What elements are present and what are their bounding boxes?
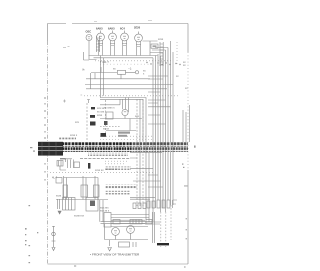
dashed enclosure right: [153, 212, 155, 243]
bus line A: [89, 55, 158, 57]
svg-text:xxxx: xxxx: [97, 114, 103, 117]
coil ladder: [96, 36, 100, 52]
band lighter right overlay: [131, 142, 188, 152]
border frame right: [187, 24, 189, 53]
svg-text:xxxxx-xx: xxxxx-xx: [74, 215, 85, 218]
nest box with arrow: [151, 44, 158, 48]
svg-text:2E26: 2E26: [134, 26, 141, 30]
lower-left structure: [68, 160, 74, 169]
svg-text:xx xxxx x: xx xxxx x: [104, 107, 115, 110]
band white slits: [70, 142, 171, 152]
tick marks above border: [94, 21, 152, 22]
svg-text:--1:: --1:: [128, 67, 132, 71]
tube V7: [112, 228, 120, 236]
svg-text:xxxx: xxxx: [158, 38, 164, 41]
svg-text:xxxx xx: xxxx xx: [95, 169, 104, 172]
border frame left: [47, 24, 49, 42]
svg-text:xxxx x: xxxx x: [70, 134, 78, 137]
border frame bottom: [48, 263, 189, 265]
junction dots row: [146, 62, 180, 65]
transformer T2: [63, 198, 76, 211]
svg-text:6AK5: 6AK5: [108, 27, 115, 31]
far right verticals: [183, 105, 190, 142]
antenna chain: [52, 226, 56, 247]
equals line: [80, 158, 130, 160]
mid verticals: [91, 56, 104, 98]
connector pins: [133, 203, 136, 209]
mid-left dashed verticals: [86, 103, 88, 140]
tube V8: [127, 226, 135, 234]
left margin dots: [25, 97, 196, 268]
svg-text:6AK5: 6AK5: [96, 27, 103, 31]
tube V6: [122, 109, 128, 115]
tube V5 oscillator: [86, 35, 92, 41]
tiny text labels: [70, 26, 164, 138]
tube V4: [135, 34, 143, 42]
relay K1: [86, 198, 98, 212]
tube V3: [121, 33, 129, 41]
border frame top: [48, 23, 189, 25]
svg-text:xxx xx x xx: xxx xx x xx: [105, 168, 118, 171]
tube V1: [97, 33, 105, 41]
small marks left of osc: [63, 47, 70, 48]
band row 2: [63, 147, 189, 152]
plate wire to nest: [142, 41, 157, 56]
dotted row 2: [100, 63, 150, 65]
tube V2: [109, 33, 117, 41]
band row 1: [63, 142, 189, 147]
svg-text:xxx xx x: xxx xx x: [100, 210, 110, 213]
mid horizontals: [91, 67, 135, 79]
svg-text:OSC: OSC: [86, 30, 92, 34]
right bundle verticals: [153, 41, 173, 222]
band left dark block: [38, 142, 63, 156]
terminal ladder: [160, 42, 164, 66]
svg-text:xx xx: xx xx: [103, 128, 110, 131]
lower mid text rows: [105, 185, 137, 189]
light row above band: [59, 138, 76, 141]
lower mid bundle verticals: [136, 99, 138, 206]
dark blobs cluster: [88, 107, 169, 245]
svg-text:T 101 T: T 101 T: [100, 60, 109, 64]
svg-text:• FRONT VIEW OF TRANSMITTER: • FRONT VIEW OF TRANSMITTER: [90, 253, 140, 257]
dotted bus: [95, 60, 172, 62]
bus line B: [94, 57, 154, 59]
svg-text:4L-7: 4L-7: [52, 176, 58, 180]
osc wiring: [84, 41, 97, 61]
modulator terminal box: [104, 213, 111, 228]
svg-text:Vr:: Vr:: [82, 68, 85, 72]
nest staircase corners: [150, 48, 168, 53]
svg-text:6C4: 6C4: [120, 27, 125, 31]
bundle cross ties right: [148, 76, 171, 124]
bottom bus: [101, 222, 153, 224]
svg-text:xxxx: xxxx: [56, 195, 62, 198]
band row 3 light: [88, 153, 128, 156]
